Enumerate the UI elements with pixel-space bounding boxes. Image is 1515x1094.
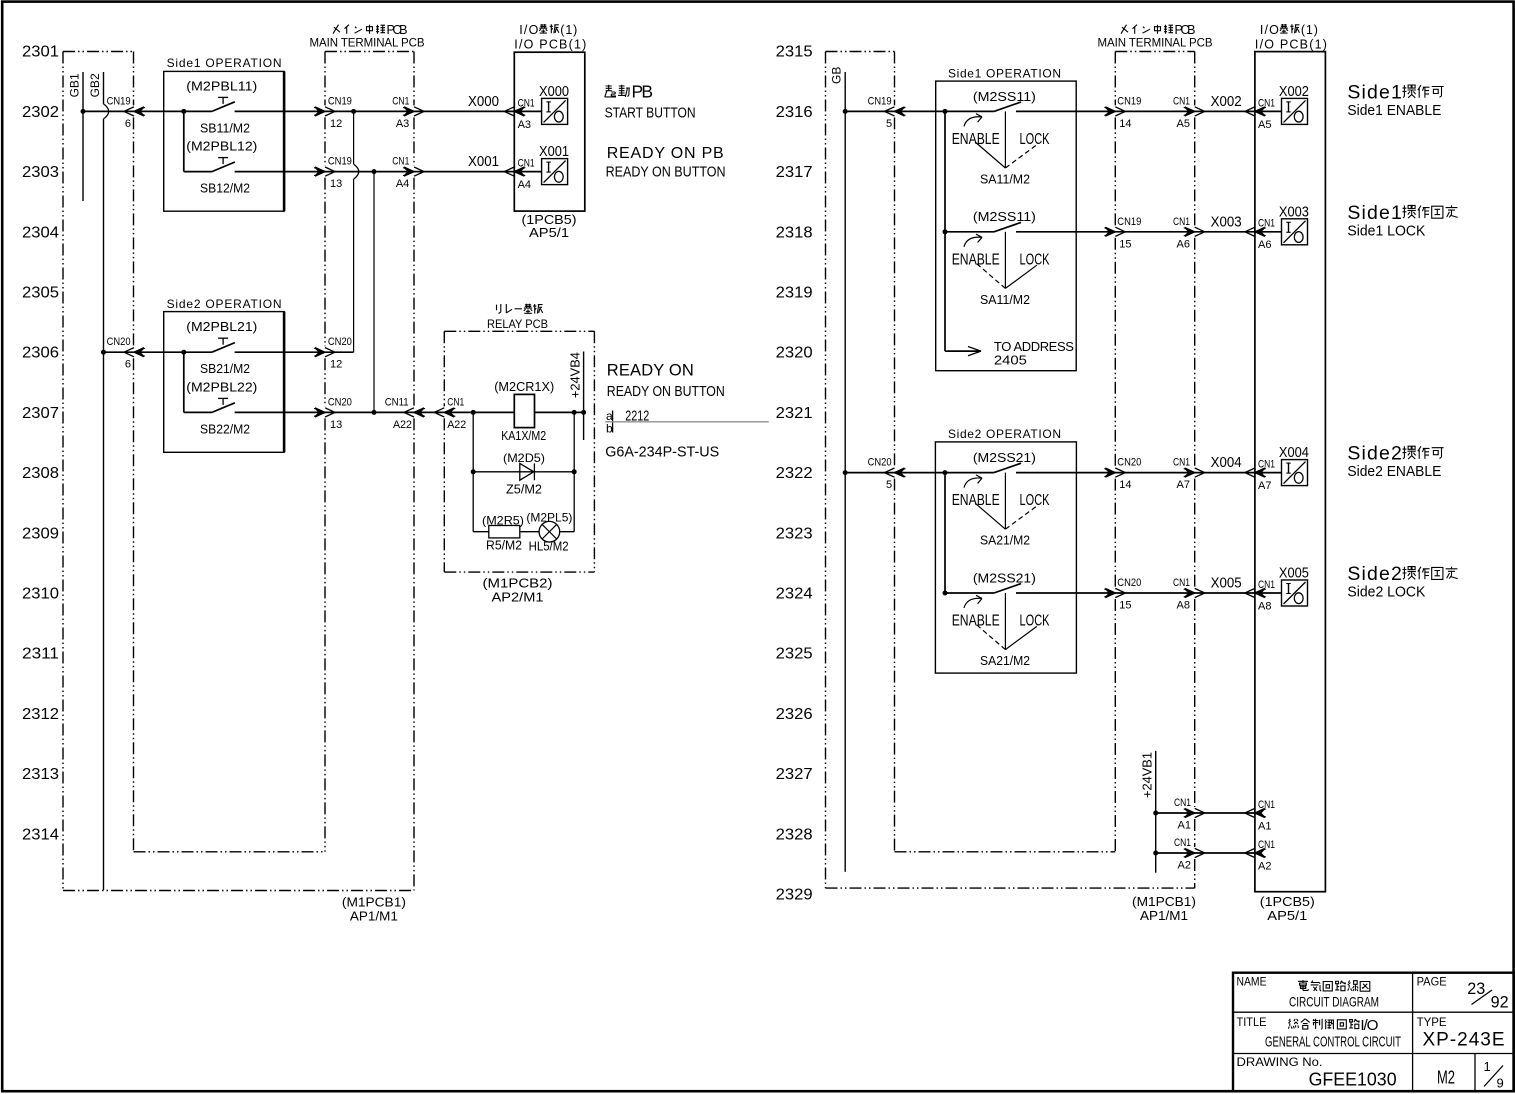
svg-text:A8: A8 <box>1177 600 1190 612</box>
svg-text:2305: 2305 <box>22 285 59 302</box>
svg-text:CN19: CN19 <box>868 95 892 107</box>
svg-text:A8: A8 <box>1258 600 1271 612</box>
svg-text:CN1: CN1 <box>518 97 535 109</box>
svg-text:CN20: CN20 <box>1117 577 1141 589</box>
svg-text:2325: 2325 <box>776 646 813 663</box>
Side2 OPERATION box left half <box>164 312 284 453</box>
wire X004 to I/O PCB right <box>1195 472 1255 474</box>
svg-text:NAME: NAME <box>1237 977 1267 989</box>
node left branch in relay PCB <box>471 410 476 415</box>
svg-text:(1): (1) <box>560 23 577 37</box>
svg-text:2314: 2314 <box>22 826 59 843</box>
svg-text:SA21/M2: SA21/M2 <box>980 533 1030 548</box>
svg-text:2329: 2329 <box>776 887 813 904</box>
wire SB22 to CN20-13 <box>235 411 325 413</box>
svg-text:+24VB4: +24VB4 <box>569 352 583 398</box>
wire stub into I/O square X003 <box>1255 231 1282 233</box>
left vertical branch in relay PCB <box>472 412 474 531</box>
svg-text:CN1: CN1 <box>1174 837 1191 849</box>
wire switch to MAIN TERMINAL PCB X002 <box>1016 110 1115 112</box>
svg-text:PCB: PCB <box>1175 23 1196 37</box>
connector CN19 pin 5 cable edge right half <box>885 107 905 116</box>
svg-text:CN1: CN1 <box>1258 579 1275 591</box>
svg-text:2324: 2324 <box>776 586 813 603</box>
svg-text:START BUTTON: START BUTTON <box>605 104 696 121</box>
svg-text:X004: X004 <box>1279 445 1309 461</box>
svg-text:(M1PCB1): (M1PCB1) <box>342 896 406 910</box>
vertical branch X000 net 2302 to 2306 <box>353 111 355 164</box>
wire stub into I/O square X000 <box>514 110 541 112</box>
svg-text:HL5/M2: HL5/M2 <box>529 540 569 554</box>
wire 2306 GB2 to Side2 box <box>104 351 212 353</box>
svg-text:KA1X/M2: KA1X/M2 <box>501 429 546 443</box>
svg-text:2301: 2301 <box>22 44 59 61</box>
svg-text:CIRCUIT DIAGRAM: CIRCUIT DIAGRAM <box>1289 994 1379 1010</box>
svg-text:2311: 2311 <box>22 646 59 663</box>
svg-text:PCB: PCB <box>387 23 408 37</box>
svg-text:AP1/M1: AP1/M1 <box>350 910 398 924</box>
svg-text:SB12/M2: SB12/M2 <box>200 181 250 196</box>
svg-text:2302: 2302 <box>22 104 59 121</box>
svg-text:2317: 2317 <box>776 164 813 181</box>
wire stub into I/O square X002 <box>1255 110 1282 112</box>
svg-text:LOCK: LOCK <box>1020 613 1050 630</box>
svg-text:SB22/M2: SB22/M2 <box>200 421 250 436</box>
connector CN20 into MAIN TERMINAL PCB right <box>1105 468 1125 477</box>
wire coil to +24VB4 <box>535 411 584 413</box>
svg-text:Side1 LOCK: Side1 LOCK <box>1347 222 1425 239</box>
svg-text:5: 5 <box>886 479 892 491</box>
svg-text:92: 92 <box>1491 993 1509 1012</box>
wire to CN1 X002 <box>1115 110 1194 112</box>
svg-text:A3: A3 <box>396 118 409 130</box>
diode Z5/M2 (M2D5) row wire <box>473 471 574 473</box>
svg-text:LOCK: LOCK <box>1020 492 1050 509</box>
svg-text:2313: 2313 <box>22 766 59 783</box>
svg-text:(M2PBL22): (M2PBL22) <box>186 379 257 394</box>
svg-text:CN19: CN19 <box>1117 216 1141 228</box>
connector CN1 A5 at I/O PCB edge right <box>1245 107 1265 116</box>
svg-text:X002: X002 <box>1279 84 1309 100</box>
svg-text:1: 1 <box>1484 1059 1491 1074</box>
node GB at 2322 <box>843 470 848 475</box>
svg-text:X004: X004 <box>1211 455 1242 471</box>
svg-text:2322: 2322 <box>776 465 813 482</box>
node joining X001 branch on 2307 <box>372 410 377 415</box>
+24VB4 supply line <box>583 352 585 441</box>
svg-text:READY ON: READY ON <box>607 362 694 380</box>
svg-text:A5: A5 <box>1258 119 1271 131</box>
node +24VB1 A1 <box>1153 811 1158 816</box>
wire SB11 to CN19-12 <box>235 110 325 112</box>
svg-text:(M2PBL11): (M2PBL11) <box>186 78 257 93</box>
node GB at 2316 <box>843 109 848 114</box>
svg-text:15: 15 <box>1119 238 1131 250</box>
svg-text:ENABLE: ENABLE <box>952 613 1000 630</box>
svg-text:X001: X001 <box>468 154 499 170</box>
connector CN20 pin6 cable edge <box>124 348 144 357</box>
wire stub into I/O square X005 <box>1255 592 1282 594</box>
svg-text:X005: X005 <box>1211 576 1242 592</box>
svg-text:CN20: CN20 <box>328 336 352 348</box>
wire X004 GB to Side box <box>845 472 994 474</box>
svg-text:A4: A4 <box>518 179 531 191</box>
svg-text:SA11/M2: SA11/M2 <box>980 172 1030 187</box>
connector CN1 A2 at I/O PCB edge bottom <box>1245 848 1265 857</box>
svg-text:CN1: CN1 <box>1258 218 1275 230</box>
Side1 OPERATION box right half <box>936 81 1076 371</box>
svg-text:ENABLE: ENABLE <box>952 131 1000 148</box>
svg-text:DRAWING No.: DRAWING No. <box>1237 1055 1323 1069</box>
svg-text:2328: 2328 <box>776 826 813 843</box>
svg-text:Side2 OPERATION: Side2 OPERATION <box>167 297 282 311</box>
svg-text:(M2SS21): (M2SS21) <box>973 571 1036 586</box>
connector CN1 A3 at I/O PCB edge <box>504 107 524 116</box>
svg-text:2310: 2310 <box>22 586 59 603</box>
svg-text:I/O PCB(1): I/O PCB(1) <box>1255 37 1327 51</box>
wire into relay coil <box>444 411 514 413</box>
svg-text:RELAY PCB: RELAY PCB <box>487 317 548 331</box>
wire 2302 GB1 to Side1 box (X000 net) <box>83 110 212 112</box>
svg-text:(1): (1) <box>1301 23 1318 37</box>
svg-text:CN19: CN19 <box>328 156 352 168</box>
wire X003 to I/O PCB right <box>1195 231 1255 233</box>
connector CN19 pin6 cable edge <box>124 107 144 116</box>
connector CN1 A7 at I/O PCB edge right <box>1245 468 1265 477</box>
svg-text:X005: X005 <box>1279 566 1309 582</box>
svg-text:Side2: Side2 <box>1347 443 1402 465</box>
svg-text:GENERAL CONTROL CIRCUIT: GENERAL CONTROL CIRCUIT <box>1265 1034 1401 1051</box>
bus GB vertical wire right half <box>844 72 846 872</box>
svg-text:ENABLE: ENABLE <box>952 492 1000 509</box>
svg-text:b: b <box>606 421 613 435</box>
svg-text:CN1: CN1 <box>392 95 409 107</box>
svg-text:A1: A1 <box>1258 820 1271 832</box>
connector CN1 A4 at I/O PCB edge <box>504 167 524 176</box>
connector CN19 into MAIN TERMINAL PCB right <box>1105 107 1125 116</box>
svg-text:2326: 2326 <box>776 706 813 723</box>
svg-text:LOCK: LOCK <box>1020 251 1050 268</box>
svg-text:I/O PCB(1): I/O PCB(1) <box>514 37 586 51</box>
svg-text:SA21/M2: SA21/M2 <box>980 653 1030 668</box>
svg-text:2315: 2315 <box>776 44 813 61</box>
wire 2324 from branch to switch <box>945 592 994 594</box>
svg-text:2321: 2321 <box>776 405 813 422</box>
svg-text:PB: PB <box>632 82 654 102</box>
wire X005 to I/O PCB right <box>1195 592 1255 594</box>
svg-text:GFEE1030: GFEE1030 <box>1309 1070 1397 1090</box>
svg-text:13: 13 <box>330 178 342 190</box>
svg-text:G6A-234P-ST-US: G6A-234P-ST-US <box>605 443 719 460</box>
svg-text:I/O: I/O <box>519 23 538 37</box>
svg-text:15: 15 <box>1119 600 1131 612</box>
relay PCB boundary box - dash-dot <box>444 330 594 332</box>
svg-text:XP-243E: XP-243E <box>1423 1030 1505 1051</box>
svg-text:CN20: CN20 <box>1117 457 1141 469</box>
svg-text:Z5/M2: Z5/M2 <box>506 483 542 497</box>
svg-text:MAIN TERMINAL PCB: MAIN TERMINAL PCB <box>310 37 425 49</box>
svg-text:(M2SS11): (M2SS11) <box>973 209 1036 224</box>
svg-text:CN1: CN1 <box>1258 97 1275 109</box>
right vertical branch in relay PCB <box>573 412 575 531</box>
svg-text:MAIN TERMINAL PCB: MAIN TERMINAL PCB <box>1098 37 1213 49</box>
node +24VB4 tap <box>581 410 586 415</box>
svg-text:2309: 2309 <box>22 525 59 542</box>
svg-text:A22: A22 <box>393 419 412 431</box>
svg-text:A4: A4 <box>396 178 409 190</box>
svg-text:A3: A3 <box>518 119 531 131</box>
svg-text:TYPE: TYPE <box>1417 1017 1447 1029</box>
svg-text:SB21/M2: SB21/M2 <box>200 361 250 376</box>
svg-text:2304: 2304 <box>22 224 59 241</box>
svg-text:TITLE: TITLE <box>1237 1017 1267 1029</box>
wire X002 to I/O PCB right <box>1195 110 1255 112</box>
connector CN19 into MAIN TERMINAL PCB right <box>1105 227 1125 236</box>
I/O PCB(1) box left - solid <box>514 52 585 211</box>
svg-text:6: 6 <box>125 118 131 130</box>
wire 2303 SB12 row (X001 net) <box>184 171 212 173</box>
wire switch to MAIN TERMINAL PCB X003 <box>1016 231 1115 233</box>
svg-text:(M2SS11): (M2SS11) <box>973 89 1036 104</box>
svg-text:Side2 LOCK: Side2 LOCK <box>1347 584 1425 601</box>
svg-text:A6: A6 <box>1258 239 1271 251</box>
svg-text:X002: X002 <box>1211 94 1242 110</box>
svg-text:2320: 2320 <box>776 345 813 362</box>
wire to CN1 X003 <box>1115 231 1194 233</box>
wire to CN1 X004 <box>1115 472 1194 474</box>
svg-text:SA11/M2: SA11/M2 <box>980 292 1030 307</box>
svg-text:CN1: CN1 <box>392 156 409 168</box>
svg-text:(1PCB5): (1PCB5) <box>1260 895 1315 909</box>
node +24VB1 A2 <box>1153 851 1158 856</box>
svg-text:2303: 2303 <box>22 164 59 181</box>
node on GB2 at 2306 <box>101 350 106 355</box>
svg-text:CN1: CN1 <box>447 396 464 408</box>
svg-text:(M2SS21): (M2SS21) <box>973 450 1036 465</box>
wire 2318 from branch to switch <box>945 231 994 233</box>
svg-text:(M1PCB1): (M1PCB1) <box>1132 895 1196 909</box>
header メイン中継PCB / MAIN TERMINAL PCB right <box>1121 25 1128 34</box>
crossing crimp of X000-branch vertical over wire 2303 <box>354 164 359 179</box>
svg-text:I/O: I/O <box>1360 1017 1378 1034</box>
wire CN1 A2 to I/O PCB <box>1156 852 1255 854</box>
svg-text:X000: X000 <box>539 84 569 100</box>
svg-text:CN1: CN1 <box>518 158 535 170</box>
svg-text:CN1: CN1 <box>1258 839 1275 851</box>
svg-text:PAGE: PAGE <box>1417 977 1447 989</box>
connector CN1 A1 at I/O PCB edge bottom <box>1245 808 1265 817</box>
connector CN20 pin12 into MAIN TERMINAL PCB <box>315 348 335 357</box>
svg-text:ENABLE: ENABLE <box>952 251 1000 268</box>
svg-text:A22: A22 <box>447 419 466 431</box>
svg-text:6: 6 <box>125 359 131 371</box>
wire 2307 SB22 row (X001/READY-ON net) <box>184 411 212 413</box>
svg-text:(1PCB5): (1PCB5) <box>522 213 577 227</box>
svg-text:2327: 2327 <box>776 766 813 783</box>
svg-text:(M2PBL21): (M2PBL21) <box>186 319 257 334</box>
svg-text:2308: 2308 <box>22 465 59 482</box>
svg-text:CN20: CN20 <box>328 396 352 408</box>
svg-text:A5: A5 <box>1177 118 1190 130</box>
vertical wire inside Side2 box (SB21 to SB22) <box>183 352 185 412</box>
wire CN11-A22 to relay PCB <box>414 411 444 413</box>
svg-text:14: 14 <box>1119 118 1131 130</box>
svg-text:2319: 2319 <box>776 285 813 302</box>
svg-text:14: 14 <box>1119 479 1131 491</box>
wire stub into I/O square X004 <box>1255 472 1282 474</box>
svg-text:READY ON PB: READY ON PB <box>607 145 724 162</box>
svg-text:X003: X003 <box>1279 204 1309 220</box>
connector crimp on GB2 at 2302 <box>104 104 109 119</box>
connector CN20 into MAIN TERMINAL PCB right <box>1105 588 1125 597</box>
svg-text:13: 13 <box>330 419 342 431</box>
svg-text:2312: 2312 <box>22 706 59 723</box>
svg-text:LOCK: LOCK <box>1020 131 1050 148</box>
wire CN19-13 to CN1-A4 <box>325 171 414 173</box>
node 2303 branch to READY-ON path <box>372 169 377 174</box>
svg-text:R5/M2: R5/M2 <box>486 539 522 553</box>
svg-text:READY ON BUTTON: READY ON BUTTON <box>606 163 726 180</box>
connector CN20 pin 5 cable edge right half <box>885 468 905 477</box>
wire switch to MAIN TERMINAL PCB X004 <box>1016 472 1115 474</box>
svg-text:2405: 2405 <box>994 353 1027 368</box>
svg-text:(M2PBL12): (M2PBL12) <box>186 139 257 154</box>
svg-text:A7: A7 <box>1258 480 1271 492</box>
wire CN20-12 elbow up to X000 branch <box>325 351 354 353</box>
svg-text:A2: A2 <box>1178 860 1191 872</box>
svg-text:CN19: CN19 <box>1117 95 1141 107</box>
svg-text:(M2D5): (M2D5) <box>503 451 545 465</box>
svg-text:CN19: CN19 <box>107 95 131 107</box>
svg-text:I/O: I/O <box>1260 23 1279 37</box>
annotation 起動PB START BUTTON <box>605 85 616 97</box>
svg-text:CN1: CN1 <box>1173 577 1190 589</box>
connector CN1 A22 at relay PCB edge <box>434 408 454 417</box>
node 2302 branch to Side2 path <box>351 109 356 114</box>
svg-text:5: 5 <box>886 118 892 130</box>
svg-text:AP2/M1: AP2/M1 <box>492 591 544 605</box>
svg-text:Side1 OPERATION: Side1 OPERATION <box>167 56 282 70</box>
svg-text:Side2 OPERATION: Side2 OPERATION <box>948 427 1061 441</box>
svg-text:GB: GB <box>830 67 844 84</box>
svg-text:Side2 ENABLE: Side2 ENABLE <box>1347 463 1441 480</box>
svg-text:2316: 2316 <box>776 104 813 121</box>
svg-text:CN20: CN20 <box>107 336 131 348</box>
svg-text:A2: A2 <box>1258 860 1271 872</box>
wire switch to MAIN TERMINAL PCB X005 <box>1016 592 1115 594</box>
svg-text:X003: X003 <box>1211 214 1242 230</box>
svg-text:(M1PCB2): (M1PCB2) <box>483 577 553 591</box>
svg-text:12: 12 <box>330 359 342 371</box>
vertical wire inside Side1 box (SB11 to SB12) <box>183 111 185 171</box>
Side1 OPERATION box left half <box>164 71 284 211</box>
svg-text:CN1: CN1 <box>1174 797 1191 809</box>
svg-text:M2: M2 <box>1437 1068 1455 1088</box>
svg-text:CN19: CN19 <box>328 95 352 107</box>
connector CN19 pin13 into MAIN TERMINAL PCB <box>315 167 335 176</box>
wire SB12 to CN19-13 <box>235 171 325 173</box>
svg-text:2318: 2318 <box>776 224 813 241</box>
svg-text:Side1 ENABLE: Side1 ENABLE <box>1347 102 1441 119</box>
svg-text:2323: 2323 <box>776 525 813 542</box>
svg-text:A6: A6 <box>1177 238 1190 250</box>
diode Z5/M2 symbol <box>520 463 534 480</box>
svg-text:CN1: CN1 <box>1258 799 1275 811</box>
cable duct boundary (M1PCB1) right half - dash-dot box <box>826 51 895 53</box>
svg-text:Side2: Side2 <box>1347 563 1402 585</box>
svg-text:23: 23 <box>1467 979 1485 998</box>
svg-text:GB1: GB1 <box>68 73 82 97</box>
svg-text:12: 12 <box>330 118 342 130</box>
svg-text:2306: 2306 <box>22 345 59 362</box>
vertical branch X001 net 2303 to 2307 <box>373 172 375 413</box>
svg-text:CN1: CN1 <box>1173 457 1190 469</box>
svg-text:AP5/1: AP5/1 <box>1267 909 1307 923</box>
+24VB1 supply line <box>1155 751 1157 873</box>
svg-text:A7: A7 <box>1177 479 1190 491</box>
svg-text:X000: X000 <box>468 94 499 110</box>
header リレー基板 / RELAY PCB <box>497 304 501 314</box>
svg-text:CN1: CN1 <box>1173 216 1190 228</box>
TO ADDRESS 2405 branch <box>945 350 981 352</box>
wire X000 to I/O PCB <box>414 110 514 112</box>
svg-text:A1: A1 <box>1178 820 1191 832</box>
wire to CN1 X005 <box>1115 592 1194 594</box>
svg-text:(M2CR1X): (M2CR1X) <box>494 379 554 394</box>
svg-text:X001: X001 <box>539 144 569 160</box>
svg-text:Side1: Side1 <box>1347 202 1402 224</box>
wire X001 to I/O PCB <box>414 171 514 173</box>
svg-text:9: 9 <box>1497 1076 1504 1091</box>
wire stub into I/O square X001 <box>514 171 541 173</box>
resistor-lamp row wire <box>473 531 574 533</box>
svg-text:2307: 2307 <box>22 405 59 422</box>
svg-text:AP5/1: AP5/1 <box>529 226 569 240</box>
wire CN20-13 to CN11-A22 <box>325 411 414 413</box>
connector CN19 pin12 into MAIN TERMINAL PCB <box>315 107 335 116</box>
svg-text:SB11/M2: SB11/M2 <box>200 120 250 135</box>
svg-text:CN1: CN1 <box>1173 95 1190 107</box>
svg-text:READY ON BUTTON: READY ON BUTTON <box>607 383 725 400</box>
svg-text:GB2: GB2 <box>88 73 102 97</box>
svg-text:Side1: Side1 <box>1347 81 1402 103</box>
title block frame <box>1233 973 1514 1091</box>
vertical wire in Side2 right box <box>944 473 946 593</box>
wire X002 GB to Side box <box>845 110 994 112</box>
Side2 OPERATION box right half <box>935 442 1076 673</box>
svg-text:CN11: CN11 <box>385 396 409 408</box>
bus GB1 vertical wire <box>82 72 84 201</box>
wire CN1 A1 to I/O PCB <box>1156 812 1255 814</box>
connector CN1 A8 at I/O PCB edge right <box>1245 588 1265 597</box>
svg-text:AP1/M1: AP1/M1 <box>1140 909 1188 923</box>
vertical wire in Side1 right box <box>944 111 946 351</box>
node on GB1 line 2302 <box>81 109 86 114</box>
cable duct boundary (M1PCB1) left half - dash-dot box <box>63 51 134 53</box>
svg-text:CN1: CN1 <box>1258 459 1275 471</box>
wire SB21 to CN20-12 <box>235 351 325 353</box>
header メイン中継PCB / MAIN TERMINAL PCB left <box>333 25 340 34</box>
bus GB2 vertical wire <box>103 72 105 104</box>
svg-text:CN20: CN20 <box>868 457 892 469</box>
I/O PCB(1) box right - solid <box>1255 52 1326 892</box>
node right branch in relay PCB <box>572 410 577 415</box>
connector CN1 A6 at I/O PCB edge right <box>1245 227 1265 236</box>
wire CN19-12 to CN1-A3 <box>325 110 414 112</box>
svg-text:+24VB1: +24VB1 <box>1141 752 1155 798</box>
connector CN20 pin13 into MAIN TERMINAL PCB <box>315 408 335 417</box>
svg-text:Side1 OPERATION: Side1 OPERATION <box>948 66 1061 80</box>
